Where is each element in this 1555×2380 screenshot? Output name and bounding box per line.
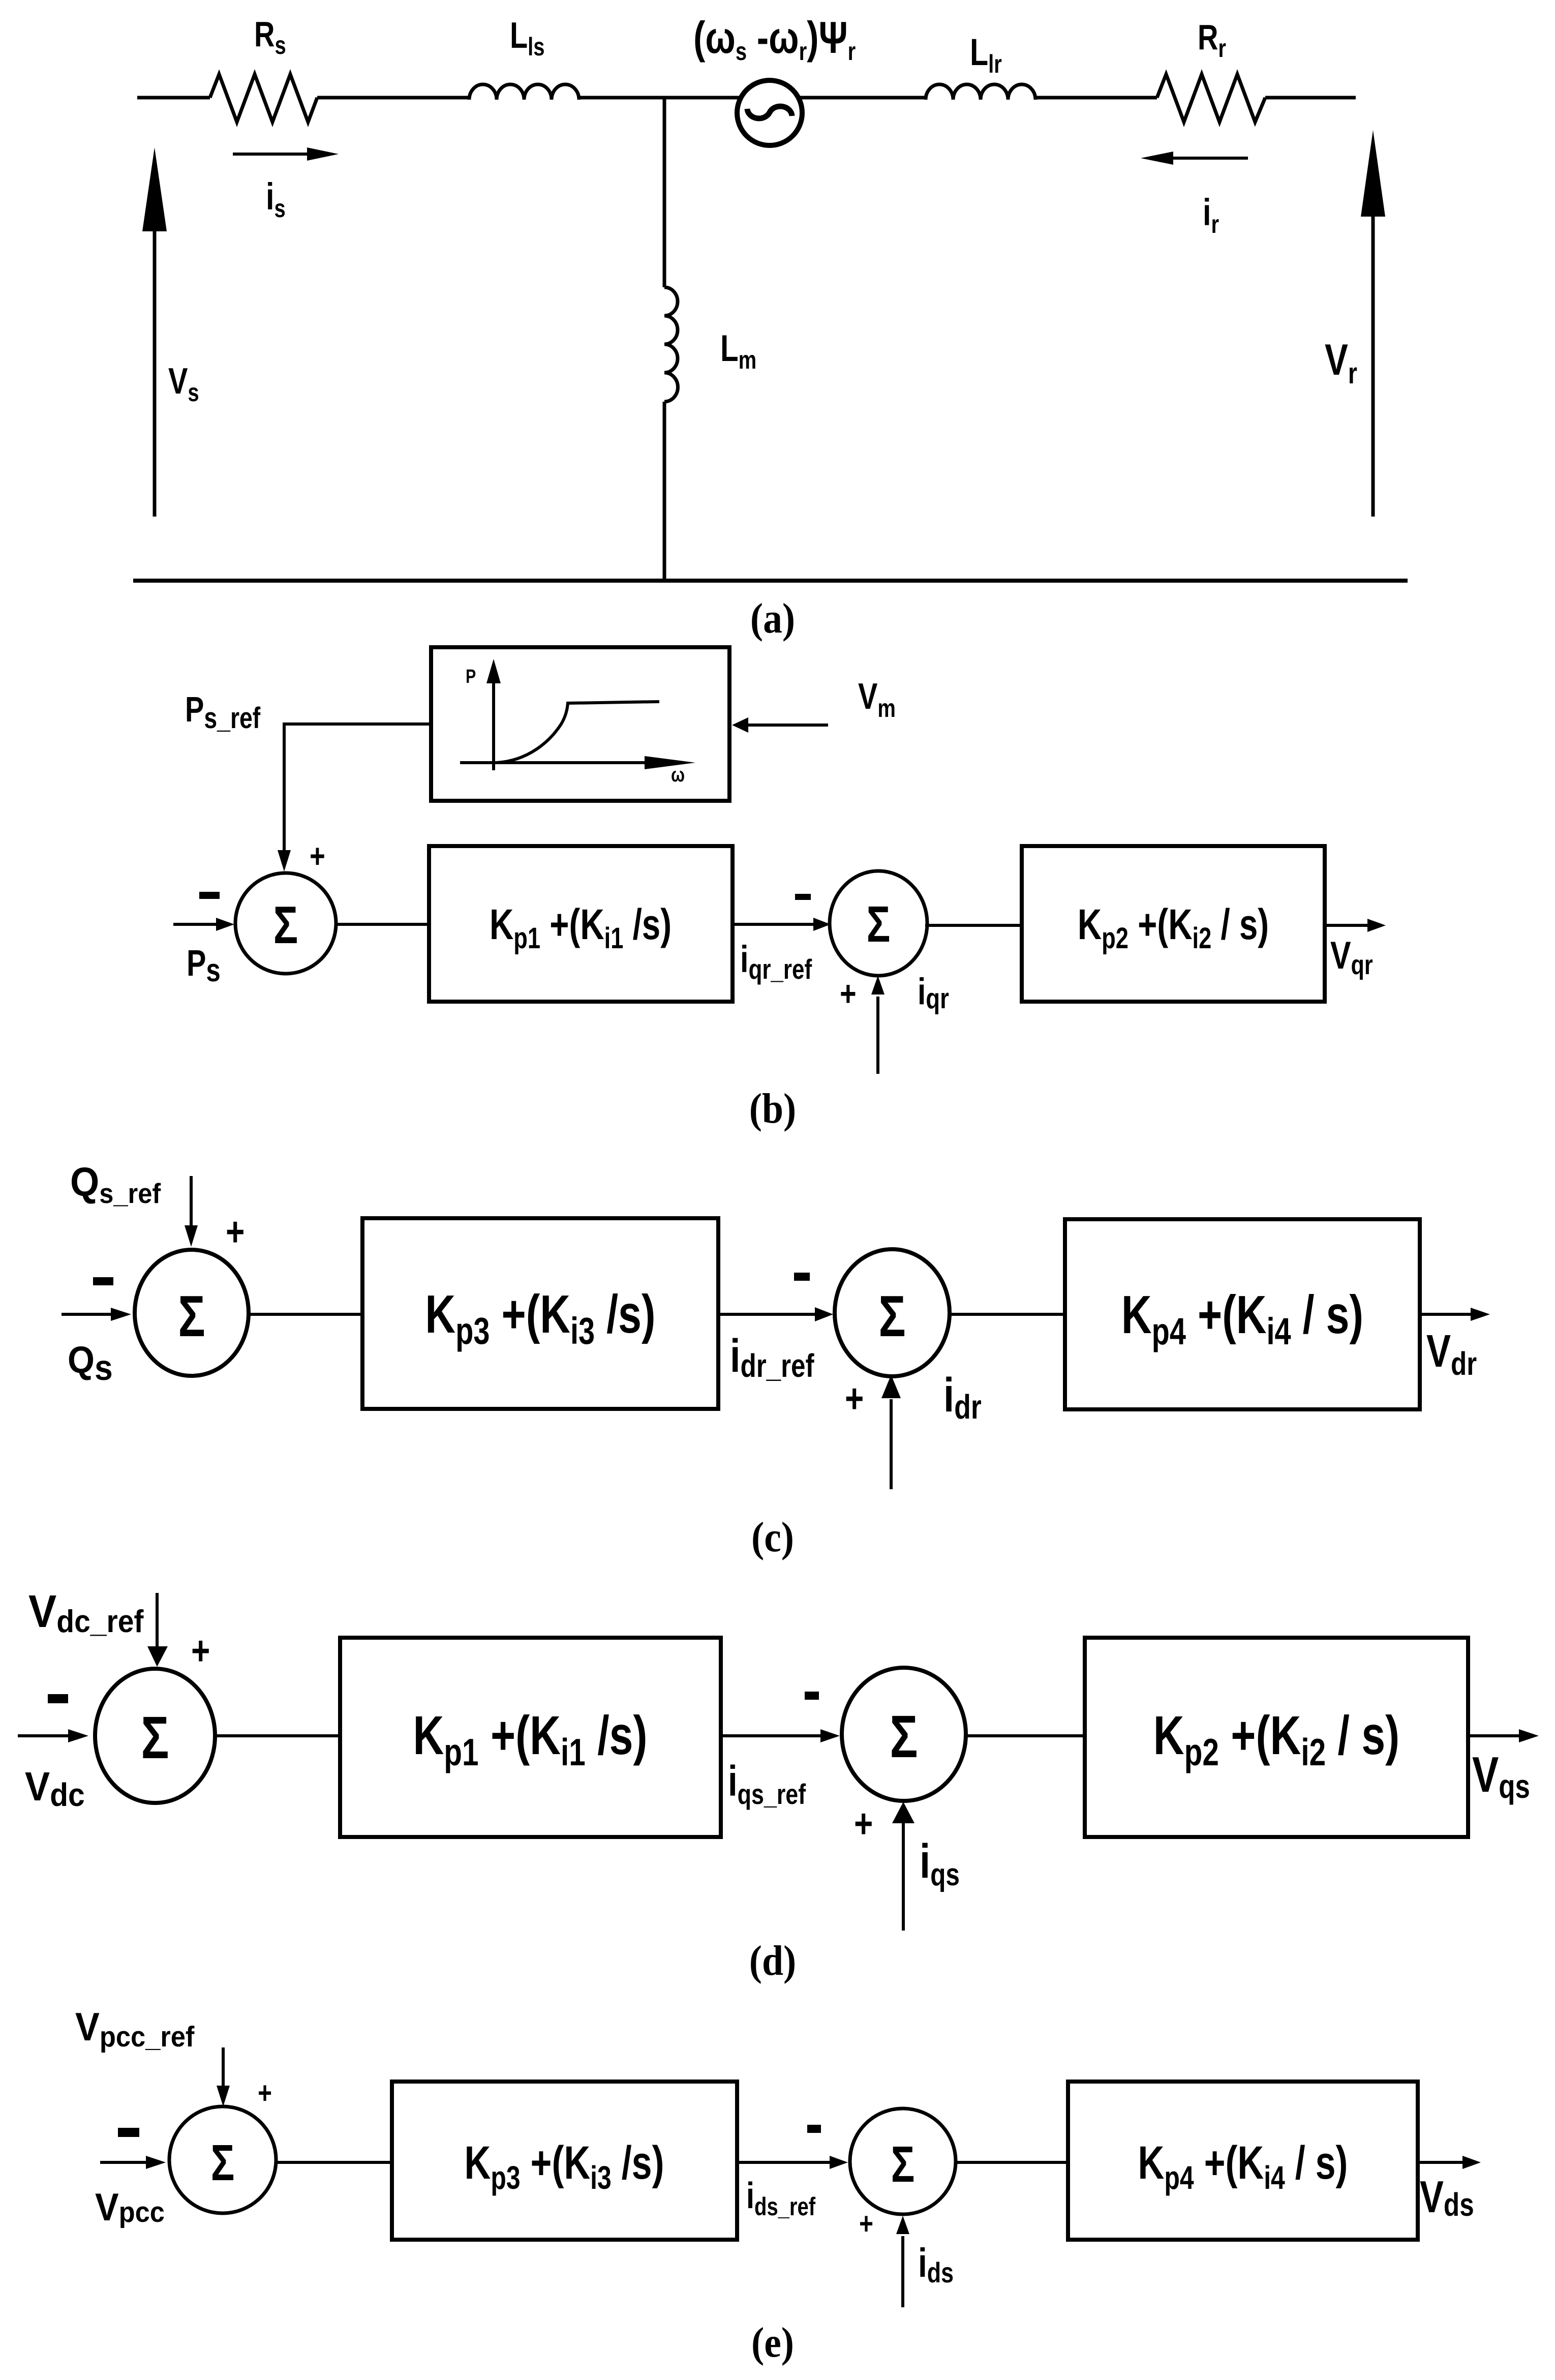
- arrow Vs: [153, 226, 157, 517]
- output arrow Vds: [1418, 2161, 1462, 2164]
- arrow Vdc into summer 1: [18, 1734, 68, 1737]
- PI block Kp3+(Ki3/s): [362, 1218, 718, 1409]
- minus sign at summer 2: [807, 2125, 821, 2133]
- svg-text:+: +: [310, 837, 325, 875]
- wire: Llr to Rr: [1035, 96, 1157, 100]
- svg-text:(c): (c): [751, 1514, 794, 1561]
- summer 2: [842, 1668, 966, 1801]
- svg-text:Σ: Σ: [178, 1283, 205, 1348]
- arrow iqs into summer 2: [902, 1823, 905, 1931]
- wire: Rr to rotor terminal: [1265, 96, 1356, 100]
- P axis: [492, 679, 495, 770]
- PI block Kp4+(Ki4/s): [1065, 1219, 1420, 1409]
- svg-text:(ωs -ωr)Ψr: (ωs -ωr)Ψr: [693, 12, 856, 66]
- wire: magnetizing branch lower: [663, 402, 666, 581]
- arrow ir: [1173, 157, 1248, 160]
- omega axis: [460, 761, 651, 764]
- summer 2: [835, 1249, 950, 1376]
- arrow Ps into summer 1: [173, 923, 216, 926]
- svg-text:(b): (b): [749, 1085, 796, 1132]
- svg-text:+: +: [191, 1628, 210, 1673]
- summer 2: [850, 2108, 956, 2214]
- arrow idr into summer 2: [890, 1399, 893, 1489]
- summer 1: [235, 873, 336, 974]
- svg-text:(a): (a): [750, 595, 795, 642]
- svg-text:Σ: Σ: [867, 896, 891, 953]
- wire summer 2 to PI block 2: [925, 924, 1022, 927]
- PI block Kp1+(Ki1/s): [340, 1638, 721, 1837]
- PI block Kp1+(Ki1/s): [429, 846, 733, 1002]
- P-omega curve: [497, 702, 659, 763]
- arrow Qs_ref into summer 1: [190, 1176, 193, 1228]
- wire: magnetizing branch upper: [663, 98, 666, 287]
- svg-text:Σ: Σ: [878, 1283, 905, 1348]
- svg-text:P: P: [466, 666, 476, 687]
- PI block Kp2+(Ki2/s): [1022, 846, 1325, 1002]
- wire summer 1 to PI block 3: [249, 1313, 362, 1316]
- arrow Vm into block: [748, 724, 828, 727]
- output arrow Vqs: [1468, 1734, 1519, 1737]
- svg-text:Σ: Σ: [273, 895, 298, 954]
- svg-text:+: +: [226, 1209, 245, 1254]
- PI block Kp2+(Ki2/s): [1085, 1638, 1468, 1837]
- resistor Rr: [1157, 74, 1265, 122]
- inductor Lls: [469, 84, 579, 100]
- PI block Kp3+(Ki3/s): [392, 2082, 737, 2240]
- arrow Qs into summer 1: [62, 1313, 111, 1316]
- svg-text:(e): (e): [751, 2319, 794, 2366]
- arrow is: [233, 153, 307, 156]
- arrow iqr into summer 2: [876, 997, 879, 1074]
- svg-text:Σ: Σ: [891, 2136, 915, 2193]
- summer 2: [830, 871, 927, 976]
- wire PI block 1 to summer 2: [721, 1734, 820, 1737]
- output arrow Vqr: [1325, 924, 1367, 927]
- wire summer 1 to PI block 3: [276, 2161, 392, 2164]
- svg-text:Σ: Σ: [211, 2135, 235, 2192]
- resistor Rs: [210, 74, 317, 122]
- summer 1: [95, 1669, 215, 1803]
- PI block Kp4+(Ki4/s): [1068, 2082, 1418, 2240]
- svg-text:+: +: [258, 2076, 272, 2110]
- wire summer 1 to PI block 1: [336, 923, 429, 926]
- arrow ids into summer 2: [901, 2236, 904, 2307]
- minus sign at summer 1: [118, 2128, 139, 2137]
- wire summer 1 to PI block 1: [214, 1734, 340, 1737]
- svg-text:+: +: [845, 1376, 864, 1421]
- wire: stator input to Rs: [137, 96, 210, 100]
- svg-text:ω: ω: [671, 763, 685, 786]
- svg-text:(d): (d): [749, 1937, 796, 1984]
- inductor Lm: [664, 287, 678, 402]
- summer 1: [169, 2106, 276, 2213]
- minus sign at summer 1: [48, 1694, 68, 1703]
- wire: bottom rail: [133, 579, 1408, 583]
- output arrow Vdr: [1420, 1313, 1471, 1316]
- arrow Vdc_ref into summer 1: [156, 1593, 159, 1650]
- minus sign at summer 2: [794, 1273, 810, 1281]
- wire: Lls through source to Llr: [579, 96, 926, 100]
- wire Ps_ref to summer 1: [284, 724, 431, 853]
- arrow Vpcc into summer 1: [100, 2161, 146, 2164]
- wire summer 2 to PI block 4: [949, 1313, 1065, 1316]
- minus sign at summer 1: [199, 892, 220, 899]
- minus sign at summer 1: [93, 1277, 113, 1285]
- wire PI block 3 to summer 2: [737, 2161, 830, 2164]
- wire summer 2 to PI block 4: [956, 2161, 1068, 2164]
- svg-text:Σ: Σ: [141, 1704, 169, 1771]
- inductor Llr: [926, 84, 1035, 100]
- summer 1: [135, 1250, 249, 1376]
- svg-text:Σ: Σ: [890, 1703, 918, 1770]
- svg-text:+: +: [840, 974, 857, 1013]
- wire PI block 3 to summer 2: [718, 1313, 815, 1316]
- power-speed curve block: [431, 647, 729, 801]
- svg-text:+: +: [854, 1801, 873, 1846]
- svg-text:+: +: [859, 2207, 873, 2241]
- minus sign at summer 2: [805, 1692, 819, 1700]
- wire: Rs to Lls: [317, 96, 469, 100]
- arrow Vr: [1371, 213, 1375, 517]
- arrow Vpcc_ref into summer 1: [222, 2047, 225, 2089]
- wire summer 2 to PI block 2: [965, 1734, 1085, 1737]
- voltage source (ws-wr)Psi_r: [737, 80, 802, 145]
- wire PI block 1 to summer 2: [733, 923, 813, 926]
- minus sign at summer 2: [795, 894, 811, 900]
